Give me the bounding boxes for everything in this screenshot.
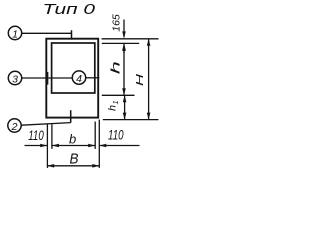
- svg-text:h: h: [107, 105, 119, 111]
- dimension line h: [122, 43, 126, 95]
- dimension line b: [52, 144, 95, 148]
- leader from balloon 4 to right jamb: [86, 77, 100, 79]
- dimension 110 left: [25, 144, 48, 148]
- balloon 3: [8, 71, 21, 84]
- svg-text:1: 1: [12, 28, 18, 40]
- tick of leader 3: [47, 72, 49, 85]
- extension line bottom (outer bottom edge level): [103, 119, 159, 121]
- balloon 4: [72, 71, 85, 84]
- svg-text:b: b: [69, 132, 76, 147]
- svg-text:h: h: [110, 61, 122, 74]
- extension line below outer-left edge: [46, 124, 48, 168]
- dimension line h1: [123, 95, 127, 119]
- dimension line H: [147, 39, 151, 120]
- svg-text:В: В: [70, 150, 79, 167]
- svg-text:165: 165: [111, 14, 122, 32]
- extension line below outer-right edge: [98, 120, 100, 168]
- dimension 110 right: [99, 144, 139, 148]
- extension line inner-bottom level: [102, 94, 135, 96]
- svg-text:110: 110: [28, 127, 44, 143]
- svg-text:4: 4: [76, 73, 82, 85]
- tick of leader 2: [70, 110, 72, 123]
- extension line inner-top level: [102, 42, 139, 44]
- svg-text:3: 3: [12, 73, 18, 85]
- balloon 1: [8, 26, 21, 39]
- extension line top (outer top edge level): [102, 38, 159, 40]
- leader from balloon 1: [22, 32, 72, 34]
- extension line below inner-left edge: [51, 124, 53, 149]
- dimension 165 upper outside arrow: [122, 20, 126, 39]
- leader from balloon 2: [21, 123, 70, 126]
- extension line below inner-right edge: [94, 122, 96, 149]
- leader from balloon 3 to balloon 4: [22, 77, 72, 79]
- svg-text:Тип 0: Тип 0: [43, 2, 96, 18]
- dimension 165 lower outside arrow: [122, 44, 126, 53]
- frame outer rectangle: [46, 39, 98, 118]
- svg-text:1: 1: [113, 100, 120, 104]
- balloon 2: [8, 119, 21, 132]
- label h1: [107, 100, 121, 110]
- svg-text:110: 110: [108, 127, 124, 143]
- svg-text:2: 2: [11, 121, 18, 133]
- svg-text:H: H: [134, 73, 146, 86]
- tick of leader 1: [71, 30, 73, 39]
- dimension line B: [47, 164, 99, 168]
- frame inner rectangle: [52, 43, 95, 93]
